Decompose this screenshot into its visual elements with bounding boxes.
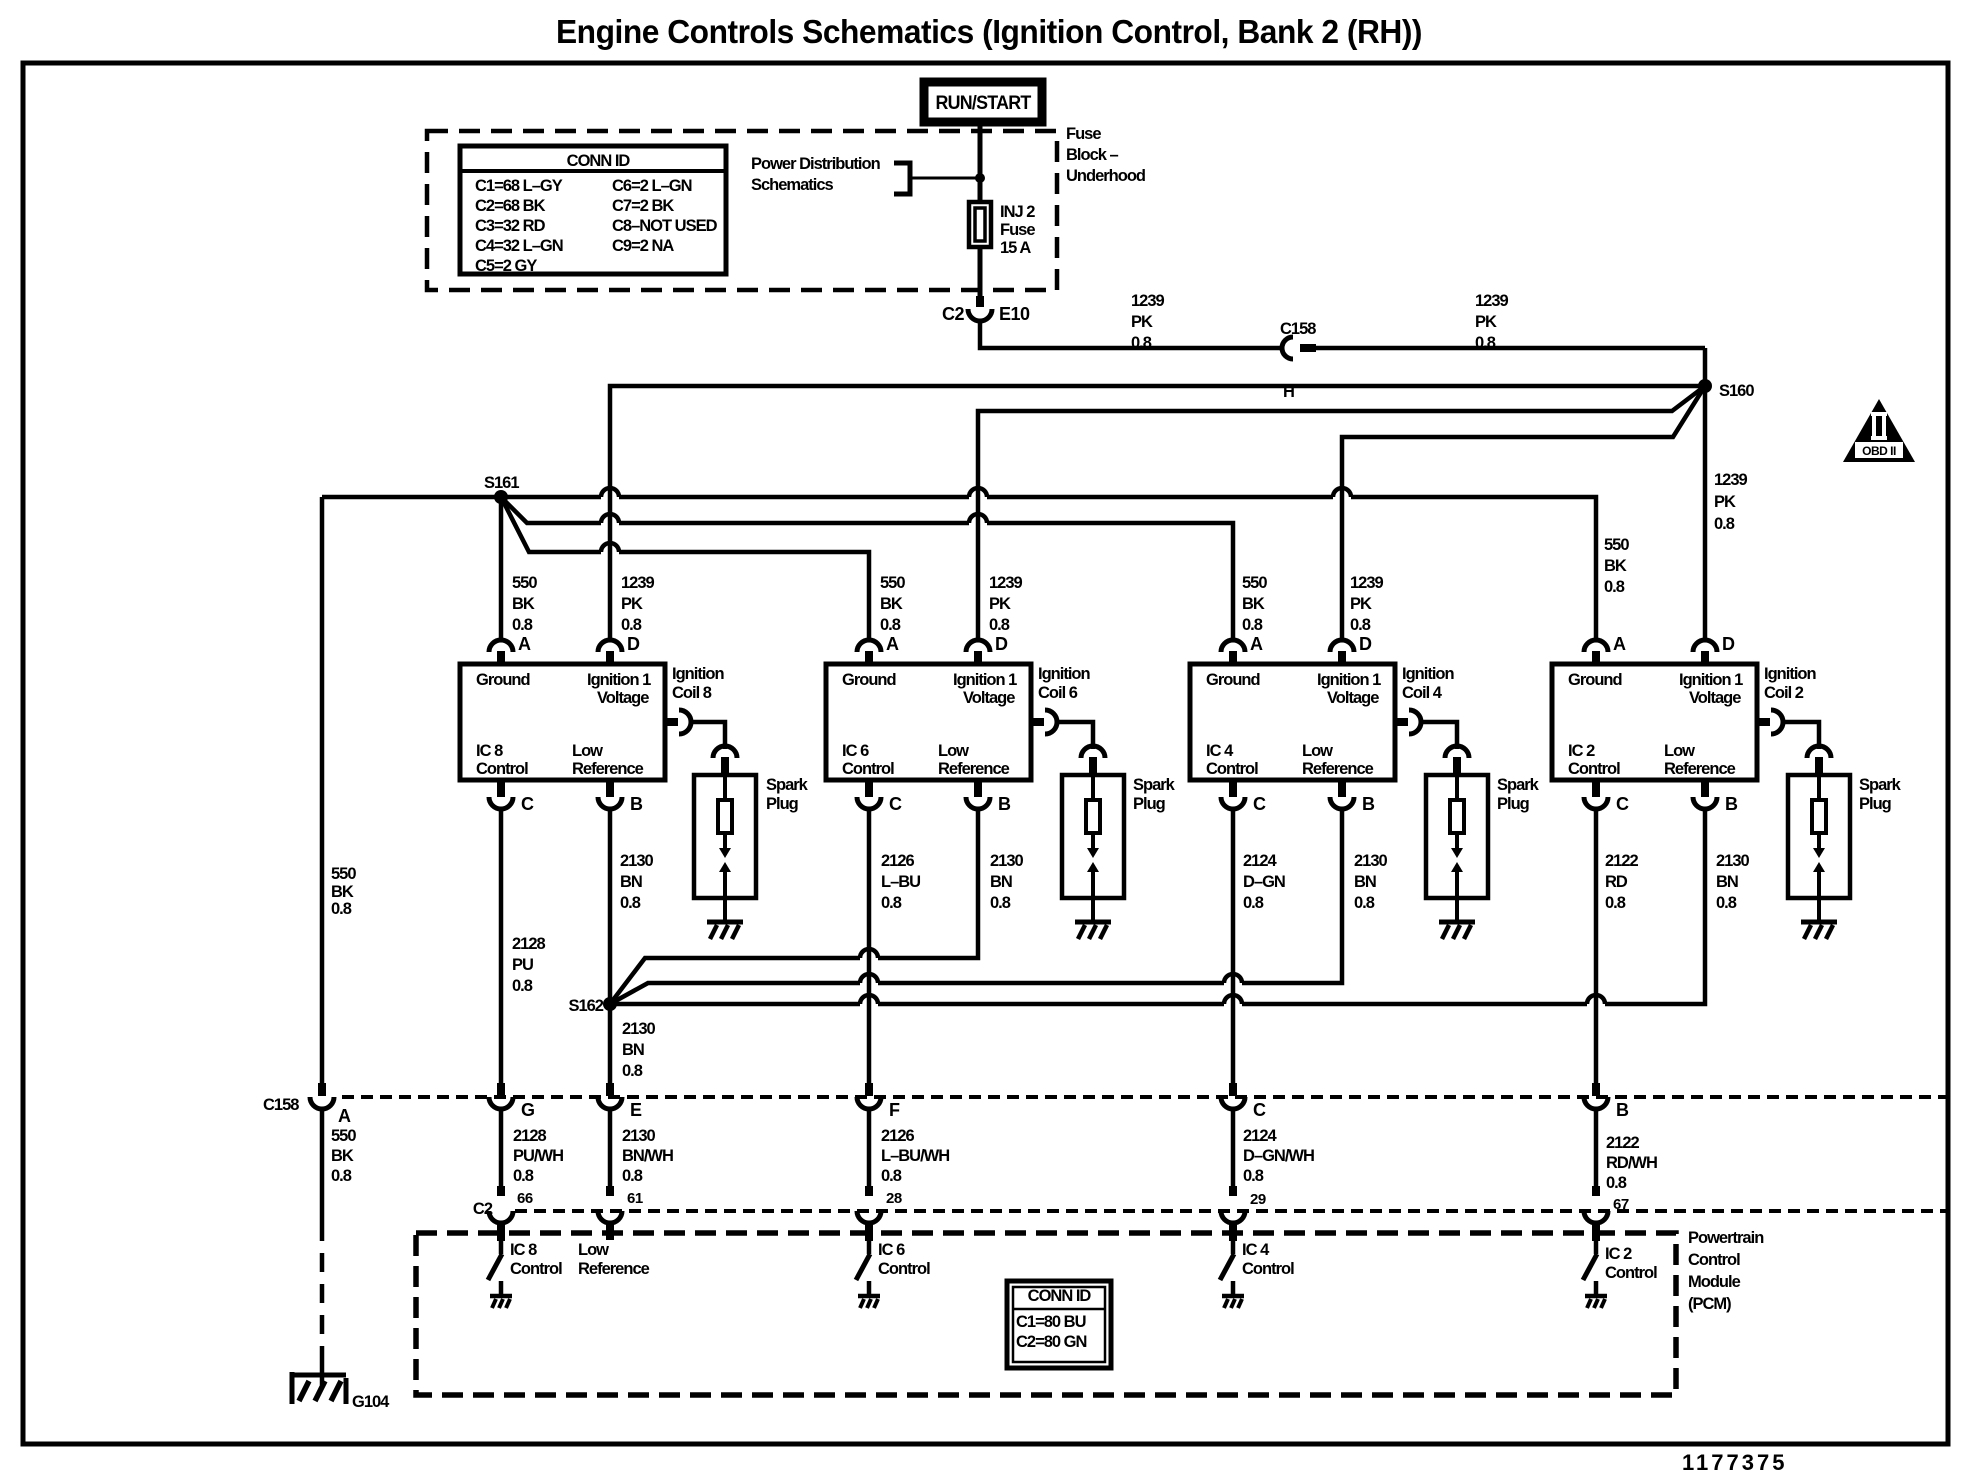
svg-text:G: G	[521, 1100, 535, 1120]
coil 2 box	[1552, 664, 1757, 780]
svg-text:BK: BK	[1604, 557, 1627, 575]
PCM pin 61	[598, 1211, 622, 1223]
svg-text:Low: Low	[1302, 742, 1333, 760]
svg-text:A: A	[338, 1106, 351, 1126]
svg-text:2130: 2130	[1716, 852, 1750, 870]
wire fuse down to C2 connector	[978, 247, 983, 296]
coil 6 secondary pin	[1031, 718, 1044, 726]
svg-text:IC 4: IC 4	[1242, 1241, 1270, 1259]
svg-text:0.8: 0.8	[880, 616, 901, 634]
wire label 2126 L-BU 0.8	[881, 852, 920, 912]
svg-text:Control: Control	[1605, 1264, 1657, 1282]
wire RUN/START down to fuse	[978, 120, 983, 202]
svg-text:Ignition 1: Ignition 1	[953, 671, 1017, 689]
svg-text:Low: Low	[578, 1241, 609, 1259]
svg-text:PK: PK	[621, 595, 643, 613]
wire hop (coil4 B branch over coil6 C)	[860, 974, 878, 983]
label Powertrain Control Module (PCM)	[1688, 1229, 1764, 1313]
wire hop over coil6 D	[969, 488, 987, 497]
wire label 1239 PK 0.8 (coil 4 D)	[1350, 574, 1384, 634]
svg-text:2130: 2130	[620, 852, 654, 870]
svg-text:Coil 2: Coil 2	[1764, 684, 1804, 702]
wire C between connectors	[1231, 1109, 1236, 1186]
PCM pin 28	[857, 1211, 881, 1223]
svg-text:BK: BK	[880, 595, 903, 613]
svg-text:0.8: 0.8	[1354, 894, 1375, 912]
svg-text:Reference: Reference	[578, 1260, 650, 1278]
svg-text:A: A	[518, 634, 531, 654]
svg-text:1239: 1239	[1131, 292, 1165, 310]
PCM IC 6 driver	[865, 1224, 873, 1241]
svg-text:0.8: 0.8	[622, 1167, 643, 1185]
wire label 1239 PK 0.8 (coil 8 D)	[621, 574, 655, 634]
svg-text:RUN/START: RUN/START	[936, 93, 1032, 114]
C158 pin C	[1229, 1083, 1237, 1096]
svg-text:D: D	[627, 634, 640, 654]
wire S161 main line with hops to coil 2 A	[322, 497, 1596, 640]
junction node on run/start wire	[975, 173, 985, 183]
coil 6 box	[826, 664, 1031, 780]
wire E between connectors	[608, 1109, 613, 1186]
wire coil 6 to spark plug	[1056, 722, 1093, 749]
svg-text:0.8: 0.8	[881, 1167, 902, 1185]
spark plug 8	[694, 775, 756, 898]
svg-text:2126: 2126	[881, 852, 915, 870]
C158 pin G	[497, 1083, 505, 1096]
svg-text:BK: BK	[331, 883, 354, 901]
label Ignition Coil 6	[1038, 665, 1090, 702]
CONN ID table (fuse block)	[460, 146, 726, 274]
wire hop over coil4 D	[1333, 488, 1351, 497]
svg-text:E: E	[630, 1100, 642, 1120]
svg-text:B: B	[630, 794, 643, 814]
svg-text:C2=68 BK: C2=68 BK	[475, 197, 546, 215]
wire label 2124 D-GN 0.8	[1243, 852, 1285, 912]
wire label 1239 PK 0.8 (coil 6 D)	[989, 574, 1023, 634]
wire label 550 BK 0.8 (coil 8 A)	[512, 574, 537, 634]
svg-text:0.8: 0.8	[1350, 616, 1371, 634]
C158 pin F	[865, 1083, 873, 1096]
svg-text:Power Distribution: Power Distribution	[751, 155, 881, 173]
wire label 2122 RD 0.8	[1605, 852, 1639, 912]
PCM CONN ID table	[1007, 1281, 1111, 1368]
svg-text:2128: 2128	[512, 935, 546, 953]
svg-text:0.8: 0.8	[331, 1167, 352, 1185]
svg-text:Low: Low	[572, 742, 603, 760]
wire coil 8 C down to PCM G	[499, 810, 504, 1083]
wire hop (coil2 B branch over coil2 C)	[1587, 995, 1605, 1004]
svg-text:0.8: 0.8	[990, 894, 1011, 912]
svg-text:550: 550	[512, 574, 537, 592]
spark plug 4 connector	[1445, 746, 1469, 758]
svg-text:61: 61	[627, 1190, 643, 1207]
ground G104	[290, 1372, 295, 1404]
svg-text:C: C	[1616, 794, 1629, 814]
fuse INJ 2 15A	[969, 202, 991, 247]
svg-text:F: F	[889, 1100, 900, 1120]
svg-text:550: 550	[331, 1127, 356, 1145]
OBD II symbol	[1843, 399, 1915, 462]
connector C158 dashed line	[342, 1095, 1948, 1099]
wire label 2130 BN 0.8 (below S162)	[622, 1020, 656, 1080]
svg-text:Plug: Plug	[1497, 795, 1529, 813]
svg-text:0.8: 0.8	[1243, 1167, 1264, 1185]
svg-text:550: 550	[1242, 574, 1267, 592]
svg-text:IC 6: IC 6	[878, 1241, 905, 1259]
svg-text:Spark: Spark	[1497, 776, 1540, 794]
Fuse Block - Underhood dashed box	[427, 131, 1057, 290]
wire coil 4 B down to S162 branch	[610, 810, 1342, 1004]
svg-text:Voltage: Voltage	[963, 689, 1015, 707]
svg-text:OBD II: OBD II	[1862, 444, 1896, 458]
svg-text:BK: BK	[512, 595, 535, 613]
svg-text:S160: S160	[1719, 382, 1754, 400]
coil 8 box	[460, 664, 665, 780]
label Fuse Block Underhood	[1066, 125, 1145, 185]
svg-text:0.8: 0.8	[620, 894, 641, 912]
svg-text:Reference: Reference	[1664, 760, 1736, 778]
svg-text:BN: BN	[1716, 873, 1738, 891]
wire label 2122 RD/WH 0.8	[1606, 1134, 1657, 1192]
svg-text:Fuse: Fuse	[1000, 221, 1035, 239]
wire coil 6 C down to PCM F	[867, 810, 872, 1083]
wire S161 down to coil 8 A	[499, 497, 504, 640]
svg-text:PK: PK	[1350, 595, 1372, 613]
svg-text:2130: 2130	[1354, 852, 1388, 870]
splice S160	[1698, 379, 1712, 393]
svg-text:Powertrain: Powertrain	[1688, 1229, 1764, 1247]
svg-text:(PCM): (PCM)	[1688, 1295, 1731, 1313]
svg-text:C9=2 NA: C9=2 NA	[612, 237, 674, 255]
svg-text:0.8: 0.8	[622, 1062, 643, 1080]
wire hop (coil6 A branch over coil8 D)	[601, 543, 619, 552]
svg-text:Ignition 1: Ignition 1	[1317, 671, 1381, 689]
coil 8 pin D	[598, 640, 622, 652]
wire label 550 BK 0.8 (coil 6 A)	[880, 574, 905, 634]
svg-text:IC 2: IC 2	[1605, 1245, 1632, 1263]
svg-text:Coil 4: Coil 4	[1402, 684, 1443, 702]
wire coil 2 B down to S162 branch	[610, 810, 1705, 1004]
svg-text:0.8: 0.8	[1475, 334, 1496, 352]
svg-text:29: 29	[1250, 1191, 1266, 1208]
coil 2 secondary pin	[1757, 718, 1770, 726]
svg-text:Control: Control	[476, 760, 528, 778]
wire label 2130 BN 0.8 (coil 8 B)	[620, 852, 654, 912]
svg-text:550: 550	[1604, 536, 1629, 554]
svg-text:C: C	[889, 794, 902, 814]
svg-text:28: 28	[886, 1190, 902, 1207]
svg-text:Plug: Plug	[1859, 795, 1891, 813]
coil 6 pin B	[974, 779, 982, 797]
wire hop (coil6 B branch over coil6 C)	[860, 949, 878, 958]
svg-text:Reference: Reference	[938, 760, 1010, 778]
svg-text:0.8: 0.8	[513, 1167, 534, 1185]
svg-text:Reference: Reference	[1302, 760, 1374, 778]
wire S160 branch to coil 8 D	[610, 386, 1705, 640]
svg-text:0.8: 0.8	[1242, 616, 1263, 634]
svg-text:A: A	[886, 634, 899, 654]
svg-text:BK: BK	[1242, 595, 1265, 613]
svg-text:Control: Control	[1688, 1251, 1740, 1269]
svg-text:E10: E10	[999, 304, 1030, 324]
svg-text:D: D	[1359, 634, 1372, 654]
coil 4 pin C	[1229, 779, 1237, 797]
svg-text:0.8: 0.8	[512, 977, 533, 995]
svg-text:RD/WH: RD/WH	[1606, 1154, 1657, 1172]
spark plug 2 connector	[1807, 746, 1831, 758]
svg-text:Low: Low	[1664, 742, 1695, 760]
svg-text:BN: BN	[1354, 873, 1376, 891]
coil 6 pin C	[865, 779, 873, 797]
wire E10 down, right to S160	[980, 321, 1283, 348]
svg-text:Spark: Spark	[1133, 776, 1176, 794]
wire coil 4 C down to PCM C	[1231, 810, 1236, 1083]
ground (spark plug 4)	[1439, 920, 1475, 925]
svg-text:0.8: 0.8	[1243, 894, 1264, 912]
svg-text:BK: BK	[331, 1147, 354, 1165]
svg-text:IC 8: IC 8	[476, 742, 503, 760]
coil 4 secondary pin	[1395, 718, 1408, 726]
svg-text:Coil 8: Coil 8	[672, 684, 712, 702]
svg-text:BN: BN	[622, 1041, 644, 1059]
svg-text:0.8: 0.8	[1606, 1174, 1627, 1192]
svg-text:2130: 2130	[622, 1020, 656, 1038]
wire label 2130 BN 0.8 (coil 2 B)	[1716, 852, 1750, 912]
wire S161 left leg down to C158 A	[320, 497, 325, 1083]
svg-text:BN: BN	[990, 873, 1012, 891]
svg-text:PK: PK	[1475, 313, 1497, 331]
svg-text:Control: Control	[1206, 760, 1258, 778]
PCM IC 2 driver	[1592, 1224, 1600, 1241]
PCM IC 4 driver	[1229, 1224, 1237, 1241]
svg-text:Plug: Plug	[766, 795, 798, 813]
svg-text:1239: 1239	[1475, 292, 1509, 310]
svg-text:A: A	[1250, 634, 1263, 654]
svg-text:BN/WH: BN/WH	[622, 1147, 673, 1165]
wire coil 2 C down to PCM B	[1594, 810, 1599, 1083]
wire label 2130 BN/WH 0.8	[622, 1127, 673, 1185]
wire label 2126 L-BU/WH 0.8	[881, 1127, 949, 1185]
svg-text:2130: 2130	[622, 1127, 656, 1145]
svg-text:PU/WH: PU/WH	[513, 1147, 563, 1165]
svg-text:C8–NOT USED: C8–NOT USED	[612, 217, 718, 235]
wire label 550 BK 0.8 (A leg)	[331, 1127, 356, 1185]
svg-text:Spark: Spark	[766, 776, 809, 794]
svg-text:Ground: Ground	[842, 671, 896, 689]
svg-text:Control: Control	[1568, 760, 1620, 778]
coil 8 pin B	[606, 779, 614, 797]
wire S161 branch to coil 6 A	[501, 497, 869, 640]
coil 2 pin D	[1693, 640, 1717, 652]
svg-text:B: B	[1616, 1100, 1629, 1120]
svg-text:0.8: 0.8	[1604, 578, 1625, 596]
svg-text:Engine Controls Schematics (Ig: Engine Controls Schematics (Ignition Con…	[556, 13, 1422, 50]
svg-text:Block –: Block –	[1066, 146, 1119, 164]
svg-text:IC 2: IC 2	[1568, 742, 1595, 760]
svg-text:Ignition 1: Ignition 1	[587, 671, 651, 689]
svg-text:0.8: 0.8	[331, 900, 352, 918]
svg-text:Module: Module	[1688, 1273, 1741, 1291]
svg-text:1239: 1239	[1350, 574, 1384, 592]
svg-text:S161: S161	[484, 474, 519, 492]
svg-text:550: 550	[880, 574, 905, 592]
ground (PCM IC 6 driver)	[858, 1294, 880, 1299]
svg-text:Plug: Plug	[1133, 795, 1165, 813]
svg-text:BN: BN	[620, 873, 642, 891]
wire label 1239 PK 0.8 (left of C158)	[1131, 292, 1165, 352]
svg-text:B: B	[998, 794, 1011, 814]
PCM IC 8 driver	[497, 1224, 505, 1241]
C158 pin E	[606, 1083, 614, 1096]
svg-text:Ground: Ground	[1206, 671, 1260, 689]
wire S161 branch to coil 4 A	[501, 497, 1233, 640]
splice S161	[494, 490, 508, 504]
svg-text:B: B	[1362, 794, 1375, 814]
ground (spark plug 8)	[707, 920, 743, 925]
wire hop (coil4 B branch over coil4 C)	[1224, 974, 1242, 983]
wire coil 8 B down through S162 to PCM E	[608, 810, 613, 1083]
label Ignition Coil 2	[1764, 665, 1816, 702]
svg-text:Underhood: Underhood	[1066, 167, 1145, 185]
svg-text:Ignition 1: Ignition 1	[1679, 671, 1743, 689]
coil 4 pin D	[1330, 640, 1354, 652]
wire coil 4 to spark plug	[1420, 722, 1457, 749]
coil 2 pin C	[1592, 779, 1600, 797]
svg-text:15 A: 15 A	[1000, 239, 1031, 257]
svg-text:Schematics: Schematics	[751, 176, 834, 194]
svg-text:L–BU/WH: L–BU/WH	[881, 1147, 949, 1165]
wire hop (coil4 A branch over coil6 D)	[969, 514, 987, 523]
wire label 1239 PK 0.8 (right of C158)	[1475, 292, 1509, 352]
svg-text:Control: Control	[1242, 1260, 1294, 1278]
wire S160 branch to coil 6 D	[978, 386, 1705, 640]
svg-text:Control: Control	[510, 1260, 562, 1278]
svg-text:C1=80 BU: C1=80 BU	[1016, 1313, 1086, 1331]
svg-text:D–GN/WH: D–GN/WH	[1243, 1147, 1314, 1165]
svg-text:S162: S162	[568, 997, 603, 1015]
C158 pin B	[1592, 1083, 1600, 1096]
Power Distribution Schematics label	[751, 155, 881, 194]
svg-text:D–GN: D–GN	[1243, 873, 1285, 891]
ground (spark plug 2)	[1801, 920, 1837, 925]
ground (PCM IC 2 driver)	[1585, 1294, 1607, 1299]
svg-text:Reference: Reference	[572, 760, 644, 778]
svg-text:0.8: 0.8	[621, 616, 642, 634]
svg-text:Voltage: Voltage	[1327, 689, 1379, 707]
svg-text:66: 66	[517, 1190, 533, 1207]
spark plug 2	[1788, 775, 1850, 898]
svg-text:2130: 2130	[990, 852, 1024, 870]
wire label 2130 BN 0.8 (coil 4 B)	[1354, 852, 1388, 912]
svg-text:1239: 1239	[1714, 471, 1748, 489]
wire label 550 BK 0.8 (coil 4 A)	[1242, 574, 1267, 634]
PCM dashed box	[416, 1233, 1676, 1395]
wire hop (coil2 B branch over coil4 C)	[1224, 995, 1242, 1004]
svg-text:2124: 2124	[1243, 1127, 1278, 1145]
wire coil 6 B down to S162 branch	[610, 810, 978, 1004]
svg-text:Ignition: Ignition	[1402, 665, 1454, 683]
wire label 550 BK 0.8 (coil 2 A)	[1604, 536, 1629, 596]
coil 6 pin D	[966, 640, 990, 652]
label Ignition Coil 8	[672, 665, 724, 702]
svg-text:C: C	[1253, 794, 1266, 814]
svg-text:Fuse: Fuse	[1066, 125, 1101, 143]
svg-text:Spark: Spark	[1859, 776, 1902, 794]
svg-text:2124: 2124	[1243, 852, 1278, 870]
svg-text:Ignition: Ignition	[1764, 665, 1816, 683]
svg-text:1177375: 1177375	[1682, 1450, 1787, 1472]
coil 2 pin A	[1584, 640, 1608, 652]
coil 2 pin B	[1701, 779, 1709, 797]
svg-text:INJ 2: INJ 2	[1000, 203, 1035, 221]
wire S160 down to coil 2 D	[1703, 348, 1708, 640]
ground (spark plug 6)	[1075, 920, 1111, 925]
PCM connector dashed line	[515, 1209, 1948, 1213]
svg-text:A: A	[1613, 634, 1626, 654]
coil 4 pin B	[1338, 779, 1346, 797]
wire label 1239 PK 0.8 (coil 2 D)	[1714, 471, 1748, 533]
wire S160 branch to coil 4 D	[1342, 386, 1705, 640]
coil 8 pin A	[489, 640, 513, 652]
wire hop over coil8 D	[601, 488, 619, 497]
svg-text:D: D	[1722, 634, 1735, 654]
svg-text:C5=2 GY: C5=2 GY	[475, 257, 537, 275]
PCM pin 29	[1221, 1211, 1245, 1223]
wire label 2124 D-GN/WH 0.8	[1243, 1127, 1314, 1185]
svg-text:G104: G104	[352, 1393, 390, 1411]
coil 8 secondary pin	[665, 718, 678, 726]
svg-text:1239: 1239	[989, 574, 1023, 592]
wire label 2130 BN 0.8 (coil 6 B)	[990, 852, 1024, 912]
svg-text:PK: PK	[989, 595, 1011, 613]
spark plug 6 connector	[1081, 746, 1105, 758]
svg-text:Ignition: Ignition	[672, 665, 724, 683]
svg-text:0.8: 0.8	[1131, 334, 1152, 352]
svg-text:RD: RD	[1605, 873, 1628, 891]
svg-text:L–BU: L–BU	[881, 873, 920, 891]
spark plug 6	[1062, 775, 1124, 898]
svg-text:Ground: Ground	[1568, 671, 1622, 689]
coil 4 pin A	[1221, 640, 1245, 652]
svg-text:0.8: 0.8	[881, 894, 902, 912]
svg-text:D: D	[995, 634, 1008, 654]
spark plug 4	[1426, 775, 1488, 898]
C158 pin A	[318, 1083, 326, 1096]
svg-text:CONN ID: CONN ID	[1028, 1287, 1092, 1305]
svg-text:0.8: 0.8	[512, 616, 533, 634]
svg-text:C2=80 GN: C2=80 GN	[1016, 1333, 1086, 1351]
coil 4 box	[1190, 664, 1395, 780]
PCM Low Reference pin	[606, 1224, 614, 1240]
svg-text:CONN ID: CONN ID	[567, 152, 631, 170]
wire label 2128 PU 0.8	[512, 935, 546, 995]
svg-text:0.8: 0.8	[1605, 894, 1626, 912]
svg-text:C2: C2	[942, 304, 964, 324]
svg-text:Coil 6: Coil 6	[1038, 684, 1078, 702]
svg-text:2126: 2126	[881, 1127, 915, 1145]
svg-text:67: 67	[1613, 1196, 1629, 1213]
svg-text:0.8: 0.8	[989, 616, 1010, 634]
svg-text:550: 550	[331, 865, 356, 883]
svg-text:PK: PK	[1131, 313, 1153, 331]
wire label 550 BK 0.8 (left leg)	[331, 865, 356, 918]
wire B between connectors	[1594, 1109, 1599, 1186]
bracket to power distribution	[894, 163, 910, 194]
svg-text:Control: Control	[842, 760, 894, 778]
ground (PCM IC 8 driver)	[490, 1294, 512, 1299]
PCM pin 67	[1584, 1211, 1608, 1223]
svg-text:C158: C158	[1280, 320, 1316, 338]
